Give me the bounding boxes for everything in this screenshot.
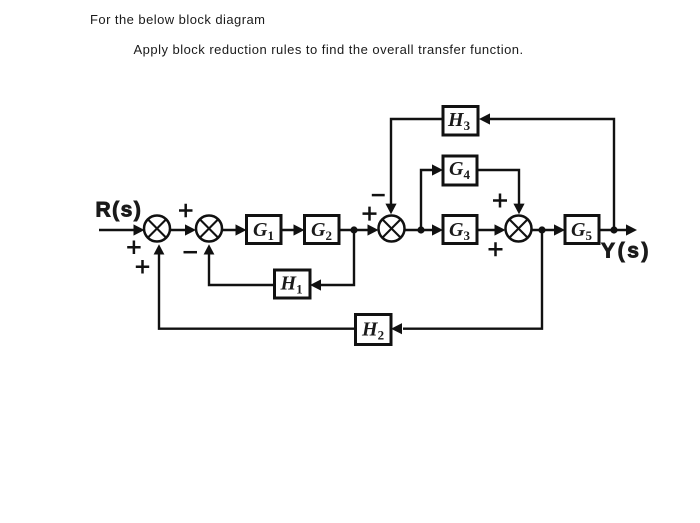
arrow into S3 [368, 224, 379, 235]
node after S4 [538, 226, 545, 233]
sign + above S2 input [179, 204, 193, 218]
wire node to H3 [487, 119, 614, 230]
arrow H2 into S1 bottom [154, 244, 165, 254]
node after G5 [610, 226, 617, 233]
arrow into S2 [185, 224, 196, 235]
sign + left of S1 (R input) [127, 241, 140, 255]
sign + below S1 (H2 input) [136, 260, 149, 274]
summing junction S1 [144, 216, 170, 242]
svg-text:Y(s): Y(s) [601, 240, 651, 263]
wire G5 to output [599, 229, 630, 231]
wire G2 to S3 [339, 229, 370, 231]
arrow into S1 [134, 224, 145, 235]
sign + below S4 (G3 input) [489, 242, 503, 256]
summing junction S4 [506, 216, 532, 242]
wire S3 to G3 [405, 229, 437, 231]
X in S1 [148, 219, 166, 237]
block H2 [356, 315, 392, 345]
wire S2 to G1 [222, 229, 239, 231]
X in S3 [382, 219, 400, 237]
block H3 [443, 107, 478, 136]
arrow into H3 [479, 113, 490, 124]
wire H1 to S2 bottom [209, 252, 275, 285]
block G1 [247, 216, 282, 244]
wire S1 to S2 [170, 229, 188, 231]
node after S3 [417, 226, 424, 233]
block H1 [275, 270, 311, 298]
wire input R(s) [99, 229, 136, 231]
wire node to H1 [317, 230, 354, 285]
node after G2 [350, 226, 357, 233]
wire G3 to S4 [477, 229, 497, 231]
arrow into S4 [495, 224, 506, 235]
block G4 [443, 156, 477, 185]
X in S4 [509, 219, 527, 237]
arrow into G1 [236, 224, 247, 235]
wire G1 to G2 [281, 229, 298, 231]
arrow into G4 [432, 164, 443, 175]
svg-text:Apply block reduction rules to: Apply block reduction rules to find the … [134, 42, 524, 57]
block G2 [305, 216, 340, 244]
sign + above S4 (G4 input) [493, 194, 507, 208]
arrow into H2 [391, 323, 402, 334]
arrow into G3 [432, 224, 443, 235]
arrow into H1 [310, 279, 321, 290]
sign - below S2 (H1 input) [184, 251, 198, 254]
wire G4 branch up from node [421, 170, 436, 230]
X in S2 [200, 219, 218, 237]
block G5 [565, 216, 599, 244]
summing junction S2 [196, 216, 222, 242]
svg-text:R(s): R(s) [96, 199, 143, 222]
arrow into G5 [554, 224, 565, 235]
wire S4 to G5 [532, 229, 559, 231]
arrow H3 into S3 top [385, 204, 396, 215]
svg-text:For the below block diagram: For the below block diagram [90, 12, 265, 27]
sign - above S3 (H3 input) [372, 194, 385, 197]
arrow into G2 [294, 224, 305, 235]
sign + left of S3 (G2 input) [363, 207, 377, 221]
arrow H1 into S2 bottom [204, 244, 215, 254]
arrow G4 into S4 top [513, 204, 524, 215]
wire node to H2 [403, 230, 542, 329]
summing junction S3 [379, 216, 405, 242]
arrow output Y(s) [626, 224, 637, 235]
wire G4 to S4 top [477, 170, 519, 206]
block G3 [443, 216, 477, 244]
wire H2 to S1 bottom [159, 252, 356, 329]
wire H3 to S3 top [391, 119, 443, 206]
